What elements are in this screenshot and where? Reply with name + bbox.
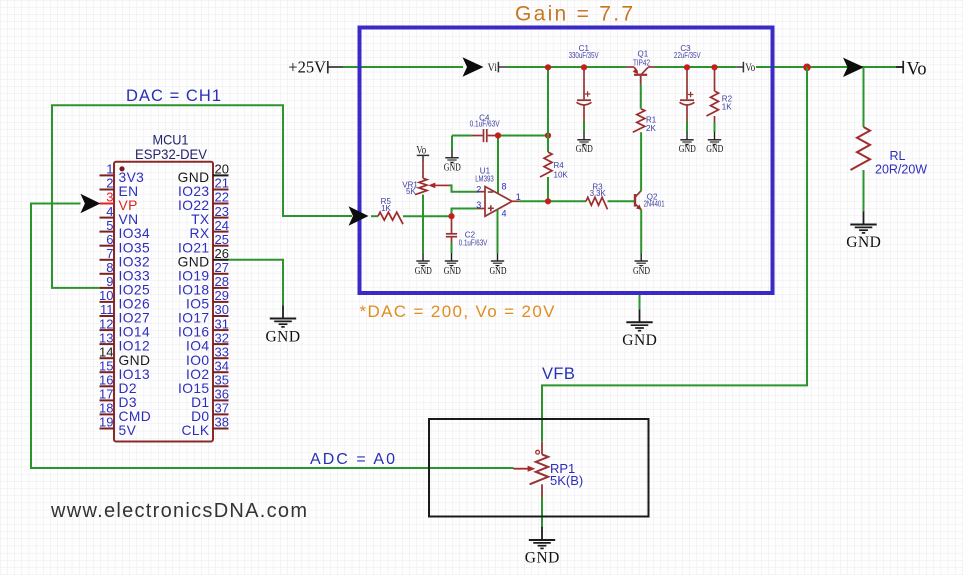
wire C4 left drop to ground	[451, 136, 453, 151]
svg-text:EN: EN	[119, 184, 139, 199]
ground below C3	[679, 132, 696, 155]
svg-text:DAC = CH1: DAC = CH1	[126, 87, 221, 105]
junction node C4/pin8	[495, 132, 501, 138]
MCU body outline	[114, 162, 213, 442]
RP1 enclosure box	[429, 419, 649, 517]
pin 36 D1	[191, 387, 229, 410]
svg-text:34: 34	[215, 358, 229, 373]
junction node +input	[448, 213, 454, 219]
pin 30 IO17	[178, 302, 229, 325]
svg-text:+25V: +25V	[288, 57, 326, 76]
pin 31 IO16	[178, 316, 229, 339]
svg-text:GND: GND	[490, 266, 507, 277]
svg-text:10K: 10K	[554, 170, 569, 179]
op-amp U1 LM393	[475, 166, 521, 218]
wire R5 input	[371, 215, 378, 217]
pin 11 IO27	[100, 302, 151, 325]
svg-text:3V3: 3V3	[119, 170, 145, 185]
wire RL to ground	[863, 170, 865, 212]
transistor Q1 TIP42	[626, 50, 655, 75]
svg-text:3.3K: 3.3K	[590, 189, 607, 198]
svg-text:36: 36	[215, 387, 229, 402]
svg-text:6: 6	[106, 232, 113, 247]
svg-text:330uF/35V: 330uF/35V	[569, 51, 600, 60]
amplifier block border box	[360, 28, 773, 294]
wire VR1 wiper to op-amp pin2	[449, 185, 478, 191]
svg-text:29: 29	[215, 288, 229, 303]
svg-text:GND: GND	[706, 144, 723, 155]
pin 18 CMD	[99, 401, 151, 424]
wire Vi node down to R4	[547, 67, 549, 152]
wire amp box internal ground stub	[639, 295, 641, 309]
svg-text:9: 9	[106, 274, 113, 289]
svg-text:0.1uF/63V: 0.1uF/63V	[470, 120, 501, 129]
pin 7 IO32	[100, 246, 151, 269]
wire R2 to ground	[714, 122, 716, 132]
MCU1 ESP32-DEV component	[99, 132, 229, 442]
svg-text:1K: 1K	[381, 204, 391, 213]
wire C1 to ground	[583, 121, 585, 132]
wire Q1 base down to R1	[640, 76, 642, 84]
svg-text:IO4: IO4	[186, 339, 209, 354]
net label Vo above VR1	[416, 145, 429, 161]
svg-text:5: 5	[106, 218, 113, 233]
pin 14 GND	[99, 344, 150, 367]
svg-text:IO35: IO35	[119, 240, 151, 255]
svg-text:Q1: Q1	[638, 50, 649, 59]
wire Q1 collector to Vo tick	[655, 66, 737, 68]
svg-text:GND: GND	[119, 353, 151, 368]
capacitor C2	[446, 216, 488, 247]
wire RP1 to ground	[541, 497, 543, 528]
svg-text:16: 16	[99, 373, 113, 388]
svg-text:Vi: Vi	[488, 62, 498, 74]
svg-text:IO21: IO21	[178, 240, 210, 255]
pin 38 CLK	[181, 415, 229, 438]
svg-text:Vo: Vo	[907, 60, 927, 80]
resistor R2	[707, 67, 733, 122]
svg-text:2K: 2K	[646, 124, 656, 133]
wire op-amp pin4 to ground	[497, 210, 499, 254]
svg-text:3: 3	[476, 200, 481, 210]
svg-text:IO15: IO15	[178, 381, 210, 396]
svg-text:RL: RL	[890, 149, 906, 163]
net label Vi	[488, 62, 507, 74]
svg-text:4: 4	[106, 204, 113, 219]
svg-text:TIP42: TIP42	[633, 58, 650, 67]
potentiometer RP1	[514, 442, 584, 497]
junction node C4/R4	[545, 132, 551, 138]
transistor Q2 2N4401	[635, 191, 665, 210]
junction node Vi/R4	[545, 64, 551, 70]
svg-text:18: 18	[99, 401, 113, 416]
pin 10 IO26	[99, 288, 150, 311]
svg-text:GND: GND	[633, 266, 650, 277]
wire op-amp output to R3	[519, 200, 586, 202]
pin 34 IO2	[186, 358, 229, 381]
pin 24 RX	[190, 218, 229, 241]
svg-text:TX: TX	[191, 212, 209, 227]
svg-text:IO14: IO14	[119, 325, 151, 340]
svg-text:2: 2	[106, 176, 113, 191]
svg-text:5K(B): 5K(B)	[550, 473, 583, 488]
pin 17 D3	[99, 387, 137, 410]
junction node R2	[711, 64, 717, 70]
wire op-amp pin8 supply	[497, 136, 499, 194]
svg-text:LM393: LM393	[475, 174, 494, 183]
svg-text:GND: GND	[679, 144, 696, 155]
pin 22 IO22	[178, 190, 229, 213]
pin 20 GND	[178, 162, 229, 185]
svg-text:IO16: IO16	[178, 325, 210, 340]
junction node C3	[684, 64, 690, 70]
net label +25V	[288, 57, 343, 76]
wire C4 to R4 node	[498, 135, 548, 137]
pin 5 IO34	[100, 218, 151, 241]
pin 32 IO4	[186, 330, 229, 353]
wire R3 to Q2 base	[608, 200, 635, 202]
svg-text:R4: R4	[554, 161, 565, 170]
pin 26 GND	[178, 246, 229, 269]
resistor R4	[540, 152, 568, 179]
pin 15 IO13	[99, 358, 150, 381]
arrow into R5 (DAC)	[349, 206, 369, 225]
svg-text:VFB: VFB	[542, 365, 575, 383]
svg-text:IO0: IO0	[186, 353, 209, 368]
svg-text:IO12: IO12	[119, 339, 151, 354]
svg-text:IO25: IO25	[119, 283, 151, 298]
capacitor C4	[470, 113, 501, 142]
ground below C1	[576, 132, 593, 155]
wire op-amp pin3 from junction	[452, 209, 478, 217]
svg-text:IO2: IO2	[186, 367, 209, 382]
junction node C1	[581, 64, 587, 70]
svg-text:IO34: IO34	[119, 226, 151, 241]
svg-text:4: 4	[502, 209, 507, 219]
ground below VR1	[415, 253, 432, 277]
svg-text:www.electronicsDNA.com: www.electronicsDNA.com	[50, 500, 307, 522]
svg-text:ESP32-DEV: ESP32-DEV	[135, 146, 208, 162]
ground below Q2	[633, 253, 650, 277]
junction node output/R4	[545, 198, 551, 204]
arrow into Vi	[463, 57, 484, 76]
wire Vo node out of box	[756, 66, 903, 68]
pin 37 D0	[191, 401, 229, 424]
wire RL branch down	[863, 67, 865, 127]
wire VR1 bottom to ground	[422, 195, 424, 253]
resistor R1	[633, 109, 657, 133]
svg-text:2N4401: 2N4401	[644, 200, 665, 209]
svg-text:Vo: Vo	[745, 62, 755, 74]
arrow to Vo output	[843, 58, 864, 77]
svg-text:38: 38	[215, 415, 229, 430]
svg-text:0.1uF/63V: 0.1uF/63V	[459, 238, 488, 247]
svg-text:11: 11	[100, 302, 114, 317]
svg-text:GND: GND	[444, 266, 461, 277]
svg-text:8: 8	[502, 182, 507, 192]
svg-text:8: 8	[106, 260, 113, 275]
svg-text:25: 25	[215, 232, 229, 247]
svg-text:10: 10	[99, 288, 113, 303]
wire C3 to ground	[686, 121, 688, 132]
capacitor C1	[569, 44, 600, 121]
pin 27 IO19	[178, 260, 229, 283]
pin 2 EN	[100, 176, 139, 199]
svg-text:IO27: IO27	[119, 311, 151, 326]
svg-text:Gain = 7.7: Gain = 7.7	[515, 3, 633, 26]
svg-text:5K: 5K	[406, 187, 416, 196]
svg-text:IO22: IO22	[178, 198, 210, 213]
ground symbol below MCU	[265, 306, 300, 346]
wire C2 to ground	[451, 243, 453, 254]
svg-text:20: 20	[215, 162, 229, 177]
svg-text:VN: VN	[119, 212, 139, 227]
svg-text:IO5: IO5	[186, 297, 209, 312]
pin 3 VP	[100, 190, 138, 213]
svg-text:D3: D3	[119, 395, 137, 410]
pin 4 VN	[100, 204, 139, 227]
resistor R5	[378, 197, 403, 224]
svg-text:35: 35	[215, 373, 229, 388]
svg-text:12: 12	[99, 316, 113, 331]
svg-text:D1: D1	[191, 395, 209, 410]
svg-text:GND: GND	[178, 254, 210, 269]
svg-text:3: 3	[106, 190, 113, 205]
svg-text:31: 31	[215, 316, 229, 331]
wire pin26 GND to ground	[229, 260, 284, 306]
pin1 orientation dot	[119, 166, 124, 171]
svg-text:GND: GND	[444, 163, 461, 174]
svg-text:32: 32	[215, 330, 229, 345]
pin 1 3V3	[100, 162, 145, 185]
svg-text:7: 7	[106, 246, 113, 261]
junction node Vo	[803, 64, 811, 72]
svg-text:23: 23	[215, 204, 229, 219]
svg-text:D0: D0	[191, 409, 209, 424]
resistor RL	[851, 127, 928, 177]
ground below op-amp	[490, 253, 507, 277]
svg-text:RX: RX	[190, 226, 210, 241]
wire Q2 collector up to R1	[640, 132, 642, 191]
svg-text:24: 24	[215, 218, 229, 233]
pin 33 IO0	[186, 344, 229, 367]
pin 19 5V	[99, 415, 137, 438]
svg-text:1K: 1K	[722, 102, 732, 111]
svg-text:VP: VP	[119, 198, 138, 213]
wire VFB net: Vo node down and across to RP1	[542, 67, 807, 442]
svg-text:IO32: IO32	[119, 254, 151, 269]
wire C4 net left	[452, 135, 471, 137]
svg-text:D2: D2	[119, 381, 137, 396]
pin 25 IO21	[178, 232, 229, 255]
ground symbol below RL	[846, 212, 881, 252]
svg-text:28: 28	[215, 274, 229, 289]
svg-text:GND: GND	[525, 549, 560, 566]
net label Vo (inside box)	[737, 62, 756, 74]
ground below C2	[444, 253, 461, 277]
svg-text:33: 33	[215, 344, 229, 359]
pin 23 TX	[191, 204, 229, 227]
svg-text:CMD: CMD	[119, 409, 152, 424]
svg-text:26: 26	[215, 246, 229, 261]
ground symbol below amp box	[622, 309, 657, 349]
wire R4 to output node	[547, 177, 549, 201]
svg-text:GND: GND	[265, 329, 300, 346]
wire +25V to Vi arrow	[343, 66, 463, 68]
svg-text:*DAC = 200, Vo = 20V: *DAC = 200, Vo = 20V	[360, 302, 556, 321]
wire Vi to C1 node	[506, 66, 626, 68]
svg-text:13: 13	[99, 330, 113, 345]
svg-text:2: 2	[476, 184, 481, 194]
svg-text:22: 22	[215, 190, 229, 205]
svg-text:GND: GND	[622, 332, 657, 349]
capacitor C3	[674, 44, 701, 121]
svg-text:IO33: IO33	[119, 268, 151, 283]
pin 8 IO33	[100, 260, 151, 283]
svg-text:IO23: IO23	[178, 184, 210, 199]
svg-text:ADC = A0: ADC = A0	[310, 451, 395, 468]
pin 6 IO35	[100, 232, 151, 255]
svg-text:1: 1	[106, 162, 113, 177]
pin 21 IO23	[178, 176, 229, 199]
ground below C4 left	[444, 150, 461, 174]
pin 13 IO12	[99, 330, 150, 353]
pin 12 IO14	[99, 316, 150, 339]
svg-text:GND: GND	[415, 266, 432, 277]
svg-text:15: 15	[99, 358, 113, 373]
svg-text:CLK: CLK	[181, 423, 209, 438]
svg-text:21: 21	[215, 176, 229, 191]
wire DAC net from pin9 IO25	[52, 105, 352, 288]
pin 16 D2	[99, 373, 137, 396]
svg-text:GND: GND	[576, 144, 593, 155]
svg-text:30: 30	[215, 302, 229, 317]
svg-text:5V: 5V	[119, 423, 137, 438]
pin 29 IO5	[186, 288, 229, 311]
svg-text:IO17: IO17	[178, 311, 210, 326]
ground symbol below RP1	[525, 527, 560, 566]
svg-text:GND: GND	[178, 170, 210, 185]
svg-text:27: 27	[215, 260, 229, 275]
svg-text:GND: GND	[846, 234, 881, 251]
ground below R2	[706, 132, 723, 155]
svg-text:14: 14	[99, 344, 113, 359]
svg-text:19: 19	[99, 415, 113, 430]
potentiometer VR1	[402, 161, 449, 196]
svg-text:IO13: IO13	[119, 367, 151, 382]
resistor R3	[586, 183, 607, 210]
wire ADC net from pin3 VP to RP1 wiper	[31, 204, 514, 469]
svg-text:20R/20W: 20R/20W	[875, 163, 927, 177]
pin 28 IO18	[178, 274, 229, 297]
svg-text:17: 17	[99, 387, 113, 402]
svg-text:22uF/35V: 22uF/35V	[674, 51, 701, 60]
pin 9 IO25	[100, 274, 151, 297]
arrow into pin3 VP	[80, 194, 100, 213]
svg-text:IO18: IO18	[178, 283, 210, 298]
svg-text:37: 37	[215, 401, 229, 416]
pin 35 IO15	[178, 373, 229, 396]
wire Q2 emitter to ground	[640, 210, 642, 253]
wire R5 to +input junction	[403, 215, 452, 217]
svg-text:IO19: IO19	[178, 268, 210, 283]
svg-text:IO26: IO26	[119, 297, 151, 312]
net label Vo (output)	[896, 60, 927, 80]
